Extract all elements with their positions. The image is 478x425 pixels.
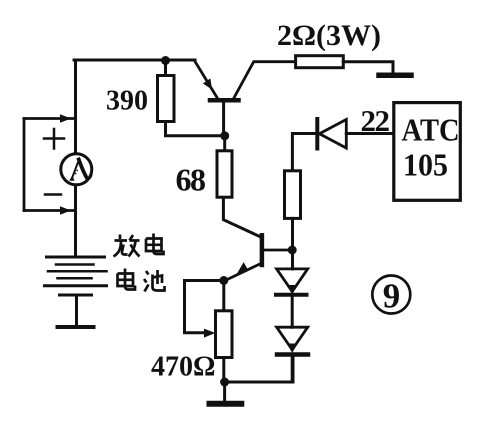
hanzi dian 1 xyxy=(146,234,164,255)
transistor Q1 collector lead xyxy=(234,62,296,99)
diode D2 apex tip xyxy=(287,285,297,295)
diode D2 bar xyxy=(276,293,307,297)
resistor R1 390 body xyxy=(158,76,175,122)
ammeter lambda symbol xyxy=(72,160,79,180)
transistor Q2 emitter arrowhead xyxy=(236,262,248,275)
transistor Q2 bar xyxy=(260,235,265,265)
svg-text:68: 68 xyxy=(176,162,207,198)
wire: left rail vertical xyxy=(74,60,77,256)
node J3 base junction xyxy=(288,246,297,255)
resistor R4 body xyxy=(285,171,301,219)
battery plate short2 xyxy=(58,277,92,280)
resistor R3 68 leads xyxy=(223,136,262,238)
diode D2 triangle xyxy=(277,269,308,292)
ground G1 xyxy=(379,72,411,78)
ammeter A body xyxy=(61,154,92,185)
wire from R2 to ground xyxy=(343,62,393,72)
transistor Q2 base lead xyxy=(262,249,292,252)
pot wiper arrowhead xyxy=(204,329,215,338)
minus sign xyxy=(45,193,61,196)
svg-text:470Ω: 470Ω xyxy=(151,352,215,383)
wire diode D1 left xyxy=(292,134,317,171)
bypass loop left vertical xyxy=(23,119,26,211)
battery plate long3 xyxy=(45,284,107,287)
svg-text:9: 9 xyxy=(383,277,401,316)
battery B1 plate long1 xyxy=(47,256,105,259)
bypass bottom arrowhead xyxy=(60,206,71,215)
battery terminal bottom bar xyxy=(58,325,94,329)
diode D1 triangle xyxy=(319,120,346,149)
svg-text:22: 22 xyxy=(361,103,391,138)
transistor Q1 emitter arrowhead xyxy=(203,78,212,89)
node J4 emitter junction xyxy=(219,276,228,285)
wire loop to pot wiper xyxy=(185,281,224,333)
svg-text:2Ω(3W): 2Ω(3W) xyxy=(277,19,381,52)
ground G2 xyxy=(210,401,242,407)
node J2 xyxy=(220,131,229,140)
battery terminal stem xyxy=(75,295,78,326)
wire J5 to diode branch xyxy=(225,357,293,382)
resistor R2 2ohm body xyxy=(296,56,344,68)
battery terminal I top bar xyxy=(60,294,92,297)
diode D3 bar xyxy=(277,352,308,357)
battery plate short1 xyxy=(56,263,94,266)
transistor Q2 emitter lead xyxy=(225,263,262,281)
battery plate long2 xyxy=(48,270,107,273)
wire: top horizontal xyxy=(74,59,195,62)
svg-text:105: 105 xyxy=(403,147,448,183)
potentiometer R5 470 leads xyxy=(222,281,225,383)
box ATC105 xyxy=(394,103,461,201)
node J1 top of 390 xyxy=(161,56,170,65)
node J5 xyxy=(220,378,229,387)
transistor Q1 emitter lead xyxy=(194,61,217,98)
wire diode D1 right to ATC xyxy=(346,132,394,135)
diode D3 apex tip xyxy=(287,344,297,354)
hanzi dian 2 xyxy=(118,269,136,290)
transistor Q1 bar xyxy=(210,98,239,103)
wire R4 to diodes xyxy=(291,218,294,269)
transistor Q1 base lead xyxy=(222,101,225,136)
hanzi chi xyxy=(144,270,165,292)
svg-text:390: 390 xyxy=(106,86,148,117)
svg-text:ATC: ATC xyxy=(402,112,460,148)
wire D3 down xyxy=(291,355,294,383)
hanzi fang xyxy=(114,235,140,257)
resistor R3 68 body xyxy=(217,151,232,197)
bypass loop top wire xyxy=(24,117,76,120)
wire J5 to ground xyxy=(223,382,226,401)
bypass top arrowhead xyxy=(60,114,71,123)
bypass loop bottom wire xyxy=(24,209,76,212)
circled 9 xyxy=(372,276,410,314)
potentiometer R5 470 body xyxy=(216,311,233,358)
diode D1 22 cathode bar xyxy=(315,119,319,149)
plus sign xyxy=(44,129,64,149)
diode D3 triangle xyxy=(277,327,308,350)
wire D2 to D3 xyxy=(291,295,294,327)
resistor R1 390 leads xyxy=(166,61,225,136)
